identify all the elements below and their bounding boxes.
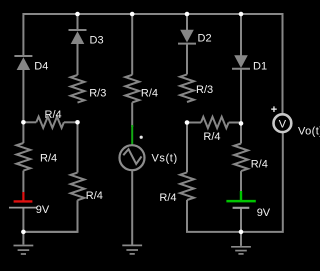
battery right 9V bottom plate — [233, 207, 250, 209]
wire green above source — [131, 125, 133, 146]
wire column E battery to bottom node — [240, 208, 242, 232]
resistor R/4 horizontal right — [201, 117, 229, 128]
resistor R/3 column B — [71, 75, 85, 103]
resistor R/4 column B lower — [71, 173, 85, 201]
node A2 — [21, 120, 26, 125]
svg-text:Vs(t): Vs(t) — [152, 153, 178, 165]
wire column D bottom — [187, 200, 241, 232]
svg-text:R/4: R/4 — [251, 159, 268, 171]
svg-text:+: + — [271, 104, 277, 116]
wire column B node to R4 — [77, 122, 79, 172]
wire column C top — [131, 14, 133, 75]
wire bottom left — [23, 231, 77, 233]
wire ground stub right — [240, 232, 242, 246]
svg-text:9V: 9V — [257, 207, 271, 219]
ground left — [14, 246, 34, 255]
source Vs(t) op circle — [120, 145, 145, 170]
battery right 9V green terminal — [226, 191, 255, 201]
diode D4 — [14, 56, 32, 70]
resistor R/4 column E — [234, 144, 248, 172]
resistor R/4 column C — [125, 75, 139, 103]
node marker dot source plus — [140, 136, 143, 139]
svg-text:R/4: R/4 — [86, 190, 103, 202]
wire column D node to R4 — [186, 123, 188, 173]
wire column E R4 to battery — [240, 171, 242, 192]
svg-text:D3: D3 — [90, 35, 104, 47]
svg-text:D4: D4 — [34, 60, 48, 72]
wire column B R4 to bottom — [23, 200, 77, 232]
wire column C below R4 — [131, 102, 133, 127]
svg-text:R/4: R/4 — [45, 109, 62, 121]
wire column E top — [240, 14, 242, 56]
resistor R/4 horizontal left — [36, 117, 64, 128]
wire top rail — [23, 14, 282, 113]
wire column C source to ground — [131, 170, 133, 244]
wire column D diode to R3 — [186, 44, 188, 74]
svg-text:D1: D1 — [253, 61, 267, 73]
node top C — [130, 12, 135, 17]
wire column E diode to node — [240, 69, 242, 144]
wire column D top — [186, 14, 188, 30]
diode D2 — [178, 30, 196, 44]
svg-text:R/4: R/4 — [203, 131, 220, 143]
resistor R/4 column D lower — [180, 172, 194, 200]
svg-text:R/3: R/3 — [89, 87, 106, 99]
node bottom right — [239, 230, 244, 235]
battery left 9V bottom plate — [9, 207, 37, 209]
svg-text:9V: 9V — [36, 204, 50, 216]
resistor R/4 horizontal left wire stubs — [23, 121, 36, 123]
diode D3 — [69, 30, 87, 44]
wire ground stub left — [22, 232, 24, 245]
svg-text:D2: D2 — [198, 33, 212, 45]
node top B — [75, 12, 80, 17]
resistor R/4 column A — [17, 143, 31, 171]
svg-text:R/3: R/3 — [196, 84, 213, 96]
svg-text:V: V — [279, 118, 287, 130]
node D2mid — [185, 120, 190, 125]
wire column A D4 to node A2 — [22, 70, 24, 143]
node E2 — [239, 121, 244, 126]
battery left 9V red terminal — [14, 192, 33, 201]
svg-text:Vo(t): Vo(t) — [298, 125, 320, 137]
svg-text:R/4: R/4 — [40, 153, 57, 165]
node bottom left — [21, 230, 26, 235]
voltmeter U1 Vo — [274, 114, 292, 132]
wire column B top — [77, 14, 79, 30]
wire column A battery to bottom node — [22, 208, 24, 232]
resistor R/4 horizontal right wire stubs — [187, 122, 201, 124]
wire column A resistor to battery — [22, 171, 24, 192]
ground middle — [122, 245, 142, 254]
ground right — [231, 247, 251, 254]
node B2 — [75, 120, 80, 125]
svg-text:R/4: R/4 — [141, 87, 158, 99]
wire bottom right to voltmeter — [241, 133, 283, 232]
diode D1 — [232, 55, 250, 69]
node top D — [185, 12, 190, 17]
wire column B diode to R3 — [77, 44, 79, 75]
svg-text:R/4: R/4 — [159, 192, 176, 204]
node top E — [239, 12, 244, 17]
resistor R/3 column D — [180, 74, 194, 102]
